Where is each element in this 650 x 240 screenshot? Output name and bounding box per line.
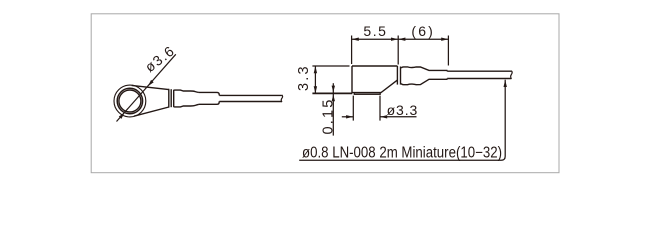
dimension d3.3 line left part: [342, 116, 354, 118]
arrowhead d3.6 lower: [119, 113, 125, 119]
arrowhead d3.3 left: [346, 115, 353, 118]
arrowhead 5.5 right: [391, 38, 398, 41]
sensing plate: [354, 93, 380, 95]
arrowhead 5.5 left: [352, 38, 359, 41]
dimension d3.3 line right part: [380, 116, 417, 118]
svg-text:ø0.8 LN-008 2m Miniature(10−32: ø0.8 LN-008 2m Miniature(10−32): [302, 144, 502, 161]
crimp sleeve: [199, 92, 219, 104]
cable right break end: [511, 71, 513, 79]
dimension d3.3 extension line right: [379, 96, 381, 121]
dimension 5.5 extension line left: [351, 36, 353, 65]
sensor body right edge: [396, 66, 398, 85]
dimension 3.3 line: [314, 66, 316, 93]
dimension 3.3 extension line bottom (merged with 0.15 refs): [312, 92, 352, 94]
leader arrowhead at cable: [504, 80, 507, 87]
cable left top edge: [219, 94, 281, 96]
svg-text:(6): (6): [411, 23, 435, 39]
sensor body outline: [352, 66, 397, 93]
ring terminal outer circle: [114, 85, 146, 117]
dimension 3.3 extension line top: [312, 65, 349, 67]
cable left break end: [281, 95, 282, 102]
ring terminal hole inner edge: [119, 90, 141, 112]
arrowhead 0.15 lower: [332, 95, 335, 102]
cable right bottom edge: [447, 78, 511, 80]
lug taper top edge: [132, 85, 169, 89]
arrowhead 3.3 top: [314, 66, 317, 73]
dimension line d3.6 diagonal: [117, 54, 176, 121]
svg-text:ø3.6: ø3.6: [142, 42, 178, 75]
crimp barrel: [174, 90, 199, 107]
dimension extension line right: [447, 36, 449, 66]
leader vertical line: [299, 80, 505, 161]
svg-text:3.3: 3.3: [296, 64, 312, 91]
sleeve neck line: [400, 67, 402, 85]
arrowhead 0.15 upper: [332, 86, 335, 93]
dimension line 5.5 and (6): [352, 38, 449, 40]
dimension d3.3 extension line left: [352, 96, 354, 121]
arrowhead d3.6 upper: [148, 80, 154, 86]
sleeve outline bottom: [401, 79, 447, 85]
ring terminal hole outer edge: [117, 88, 142, 113]
dimension 0.15 stem: [332, 83, 334, 135]
lug neck line 2: [170, 89, 172, 107]
cable left bottom edge: [219, 101, 281, 103]
lug neck line 1: [168, 89, 170, 108]
arrowhead (6) left: [398, 38, 405, 41]
arrowhead d3.3 right: [380, 115, 387, 118]
svg-text:0.15: 0.15: [321, 97, 337, 134]
svg-text:5.5: 5.5: [363, 23, 387, 39]
sleeve outline top: [401, 67, 447, 71]
arrowhead (6) right: [441, 38, 448, 41]
arrowhead 3.3 bottom: [314, 86, 317, 93]
cable right top edge: [447, 70, 511, 72]
lug taper bottom edge: [134, 107, 169, 116]
svg-text:ø3.3: ø3.3: [387, 102, 419, 118]
dimension extension line middle: [397, 36, 399, 65]
